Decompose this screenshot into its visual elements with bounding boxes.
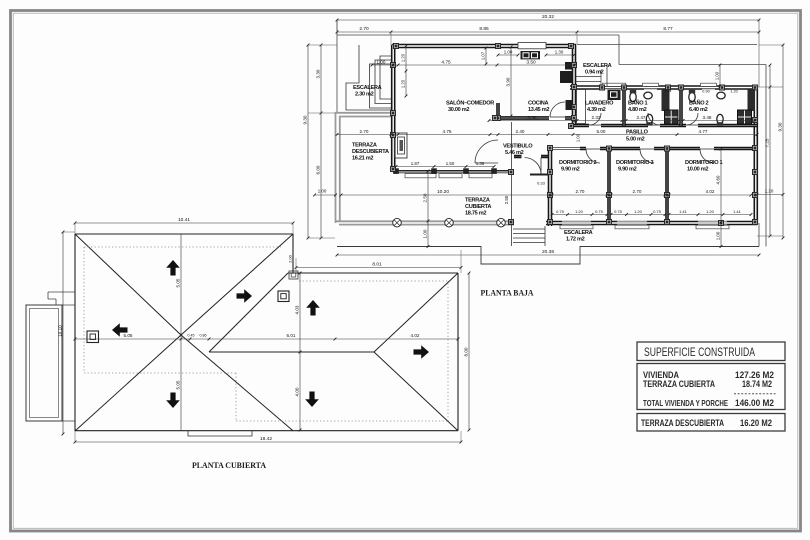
svg-text:SALÓN–COMEDOR: SALÓN–COMEDOR (446, 99, 494, 107)
svg-text:5.05: 5.05 (175, 278, 180, 287)
west stair boundary step (346, 45, 391, 110)
svg-text:2.70: 2.70 (359, 26, 369, 32)
dim 4.02 dorm1 (669, 194, 751, 196)
left roof outline (75, 234, 458, 431)
svg-text:0.33: 0.33 (537, 181, 546, 186)
dashed separator (734, 393, 776, 395)
svg-text:6.00: 6.00 (315, 165, 320, 174)
svg-text:5.05: 5.05 (124, 333, 133, 338)
svg-text:1.00: 1.00 (422, 229, 427, 238)
svg-text:1.00: 1.00 (715, 231, 720, 240)
porch column 3 (497, 218, 506, 227)
bottom plot outline with stair notch (337, 247, 759, 265)
svg-text:0.45: 0.45 (188, 334, 195, 338)
svg-text:10.00 m2: 10.00 m2 (687, 167, 708, 173)
east wall of cocina (572, 45, 577, 126)
vestibule east / dorm2 west wall (548, 148, 553, 227)
dim row y=166.5 windows 1.87 1.50 1.38 (396, 166, 494, 168)
svg-text:10.41: 10.41 (178, 217, 190, 223)
dim row y=120.5: 3.50 2.33 2.47 3.48 (489, 120, 757, 122)
svg-text:4.75: 4.75 (443, 129, 452, 134)
left boundary thin line x=337 (336, 20, 338, 113)
door cocina (550, 116, 565, 118)
right roof hip SE (374, 352, 458, 431)
back stair treads (576, 76, 602, 78)
terraza descubierta west wall (gray) (335, 112, 337, 223)
columns on walls (393, 43, 399, 49)
svg-text:18.42: 18.42 (260, 436, 272, 442)
roof slope arrow right-upper (237, 289, 253, 303)
table bottom box (637, 414, 785, 432)
dim row 2.70 / 8.85 / 8.77 (337, 31, 759, 33)
svg-text:4.02: 4.02 (411, 333, 420, 338)
svg-text:1.20: 1.20 (706, 209, 715, 214)
svg-text:2.70: 2.70 (633, 189, 642, 194)
terraza bottom connector (62, 420, 75, 422)
svg-text:DORMITORIO 1: DORMITORIO 1 (685, 160, 723, 166)
roof bottom small tab (188, 431, 252, 436)
svg-text:18.75 m2: 18.75 m2 (465, 211, 486, 217)
dim 1.20 right side (757, 194, 783, 196)
roof dim 8.01 (296, 267, 461, 269)
west stair escalera 2.30 nested steps (380, 56, 391, 99)
right outline x=759 upper ext (758, 20, 760, 87)
porch slab edge (gray) (335, 220, 514, 222)
svg-text:2.47: 2.47 (637, 115, 646, 120)
svg-text:1.11: 1.11 (664, 89, 671, 93)
svg-text:6.40 m2: 6.40 m2 (689, 107, 708, 113)
partition bano1-bano2 (679, 87, 683, 126)
window in dorm2 north wall (552, 146, 580, 150)
svg-text:1.00: 1.00 (714, 71, 719, 80)
svg-text:20.38: 20.38 (542, 249, 554, 255)
svg-text:TERRAZA: TERRAZA (465, 198, 490, 204)
dim 20.38 bottom (337, 254, 759, 256)
left roof hip NE (181, 234, 293, 335)
vestibule south wall with front door (514, 155, 548, 158)
svg-text:PLANTA CUBIERTA: PLANTA CUBIERTA (192, 460, 267, 470)
svg-text:18.74 M2: 18.74 M2 (742, 379, 772, 389)
door dormitorio1 (700, 148, 714, 150)
svg-text:TERRAZA CUBIERTA: TERRAZA CUBIERTA (643, 379, 716, 389)
svg-text:0.75: 0.75 (556, 209, 565, 214)
svg-text:1.00: 1.00 (318, 189, 327, 194)
dim 3.90 vertical cocina (510, 47, 512, 116)
right roof top edge (288, 272, 458, 274)
kitchen sink-stove block (521, 51, 541, 59)
oven by east wall (566, 100, 573, 110)
dim row y=134.5: 2.70 4.75 2.40 5.00 4.77 (337, 134, 757, 136)
table title box (637, 342, 785, 361)
svg-text:6.01: 6.01 (287, 333, 296, 338)
right roof hip NE (374, 273, 458, 352)
fireplace on salon west wall (395, 133, 408, 158)
svg-text:LAVADERO: LAVADERO (585, 101, 614, 107)
roof vertical dim x=181: 5.05 5.05 (180, 234, 182, 431)
dim 1.00 wing eave vertical (719, 65, 721, 86)
svg-text:PLANTA BAJA: PLANTA BAJA (481, 288, 535, 298)
svg-text:DORMITORIO 3: DORMITORIO 3 (616, 160, 654, 166)
north wall of right wing (570, 85, 757, 90)
dim row y=65: 1.00 4.75 3.50 (372, 64, 575, 66)
roof slope arrow down-right roof (305, 392, 319, 408)
dim 2.70 dorm2 (552, 194, 607, 196)
svg-text:3.50: 3.50 (528, 115, 537, 120)
svg-text:1.20: 1.20 (634, 209, 643, 214)
svg-text:5.05: 5.05 (175, 380, 180, 389)
svg-text:ESCALERA: ESCALERA (583, 63, 612, 69)
dim 9.30 rightmost vertical (782, 45, 784, 238)
svg-text:4.03: 4.03 (294, 305, 299, 314)
terraza descubierta north wall (gray) (335, 112, 392, 114)
left dim extension lines (308, 44, 337, 46)
vestibule lobby south lip (530, 174, 548, 176)
roof dim 10.10 left (62, 232, 64, 434)
dim 10.20 porch (341, 194, 550, 196)
bano1 bidet (646, 114, 652, 123)
window gap dormitorio 3 south (617, 221, 647, 225)
valley between roofs (209, 273, 288, 352)
fridge (560, 71, 572, 83)
svg-text:5.00: 5.00 (597, 129, 606, 134)
salon east stub wall (496, 103, 500, 119)
svg-text:4.02: 4.02 (706, 189, 715, 194)
right outline x=759 lower (758, 223, 760, 247)
eave line back (top) of left section (337, 34, 619, 36)
svg-text:0.90: 0.90 (702, 90, 709, 94)
ridge line (209, 351, 374, 353)
svg-text:10.20: 10.20 (437, 189, 449, 195)
bano2 sink (717, 92, 725, 99)
porch column 1 (393, 218, 402, 227)
roof dashed footprint (84, 246, 281, 248)
svg-text:2.50: 2.50 (422, 193, 427, 202)
dim 1.00 left of terraza (315, 194, 336, 196)
svg-text:5.00 m2: 5.00 m2 (626, 137, 645, 143)
svg-text:4.39 m2: 4.39 m2 (587, 107, 606, 113)
garden stair escalera 1.72 treads (513, 228, 545, 230)
svg-text:1.20: 1.20 (765, 189, 774, 194)
svg-text:9.30: 9.30 (777, 122, 782, 131)
dim 1.00 / 1.30 kitchen top (498, 54, 518, 56)
bano2 toilet (689, 92, 695, 101)
svg-text:PASILLO: PASILLO (626, 130, 649, 136)
svg-text:0.86: 0.86 (200, 334, 207, 338)
roof horizontal dim line 5.05 0.45 0.86 6.01 4.02 (75, 338, 458, 340)
svg-text:CUBIERTA: CUBIERTA (465, 204, 491, 210)
svg-text:10.10: 10.10 (57, 325, 62, 337)
roof terraza rectangle (26, 305, 62, 421)
svg-text:3.48: 3.48 (703, 115, 712, 120)
svg-text:COCINA: COCINA (528, 101, 549, 107)
svg-text:9.90 m2: 9.90 m2 (618, 167, 637, 173)
svg-text:2.50: 2.50 (504, 195, 509, 204)
svg-text:1.87: 1.87 (411, 161, 420, 166)
porch column 2 (445, 218, 454, 227)
dim 4.60 dorm1 vertical (720, 149, 722, 222)
washing machine (608, 90, 621, 101)
svg-text:1.50: 1.50 (446, 161, 455, 166)
svg-text:7.25: 7.25 (764, 138, 769, 147)
svg-text:3.90: 3.90 (505, 77, 510, 86)
east wall of dwelling (753, 86, 758, 224)
roof slope arrow left (112, 323, 128, 337)
eave line over right wing (619, 64, 766, 66)
dim 1.07 vertical (485, 48, 487, 64)
roof slope arrow up-right roof (306, 300, 320, 316)
bano2 bidet (717, 114, 723, 123)
svg-text:0.75: 0.75 (595, 209, 604, 214)
door salon-vestibulo (475, 162, 498, 164)
svg-text:1.20: 1.20 (575, 209, 584, 214)
dim 9.30 leftmost vertical (307, 45, 309, 238)
window gap dormitorio 1 south (698, 221, 727, 225)
svg-text:1.38: 1.38 (476, 161, 485, 166)
svg-text:4.75: 4.75 (441, 59, 451, 65)
roof dim 8.00 right (468, 273, 470, 430)
thin line along y=44.5 right of cocina (577, 44, 757, 46)
salon south window sills (405, 174, 436, 178)
svg-text:16.20 M2: 16.20 M2 (740, 418, 772, 428)
kitchen small appliance (565, 62, 572, 70)
salon south glazing line (393, 170, 511, 172)
svg-text:4.60: 4.60 (715, 175, 720, 184)
svg-text:0.94 m2: 0.94 m2 (585, 70, 604, 76)
bano1 duct block (662, 89, 670, 111)
left roof hip NW (75, 234, 181, 335)
svg-text:1.07: 1.07 (480, 51, 485, 60)
dim 1.20 1.20 vertical salon west (405, 46, 407, 96)
svg-text:BAÑO 1: BAÑO 1 (628, 100, 648, 107)
svg-text:1.20: 1.20 (730, 90, 737, 94)
dim 1.00 below dorm1 (720, 223, 722, 247)
svg-text:2.30 m2: 2.30 m2 (355, 92, 374, 98)
svg-text:1.00: 1.00 (575, 133, 580, 142)
glazing posts (393, 168, 399, 174)
svg-text:146.00 M2: 146.00 M2 (735, 398, 774, 408)
dim row y=214.5 dorm windows (552, 214, 607, 216)
svg-text:4.77: 4.77 (699, 129, 708, 134)
svg-text:2.00: 2.00 (287, 254, 292, 263)
svg-text:3.30: 3.30 (315, 69, 320, 78)
door dormitorio2 (586, 148, 600, 150)
partition dorm2-dorm3 (607, 149, 611, 223)
left roof hip SW (75, 335, 181, 431)
svg-text:8.85: 8.85 (479, 26, 489, 32)
bano2 shower (738, 110, 752, 124)
svg-text:2.33: 2.33 (592, 115, 601, 120)
back stair escalera 0.94 outline (606, 65, 608, 87)
roof slope arrow right-right roof (414, 345, 430, 359)
south wall of dormitorios (546, 221, 757, 226)
door bano2 (686, 124, 698, 126)
svg-text:TERRAZA DESCUBIERTA: TERRAZA DESCUBIERTA (641, 418, 724, 428)
svg-text:2.70: 2.70 (360, 129, 369, 134)
svg-text:TERRAZA: TERRAZA (352, 143, 377, 149)
svg-text:1.41: 1.41 (679, 209, 688, 214)
svg-text:20.32: 20.32 (542, 14, 554, 20)
door dormitorio3 (640, 148, 654, 150)
svg-text:2.40: 2.40 (516, 129, 525, 134)
svg-text:ESCALERA: ESCALERA (564, 230, 593, 236)
svg-text:DESCUBIERTA: DESCUBIERTA (352, 149, 389, 155)
dim 2.50 / 1.00 porch vertical (427, 171, 429, 247)
north wall of salon-cocina (392, 44, 576, 49)
svg-text:DORMITORIO 2: DORMITORIO 2 (559, 160, 597, 166)
svg-text:ESCALERA: ESCALERA (353, 85, 382, 91)
svg-text:5.46 m2: 5.46 m2 (505, 150, 524, 156)
dim 20.32 top (337, 19, 759, 21)
partition lavadero-bano1 (622, 87, 626, 126)
dim 7.25 right vertical (769, 65, 771, 236)
right roof right edge (457, 273, 459, 431)
svg-text:4.00: 4.00 (294, 387, 299, 396)
svg-text:TOTAL VIVIENDA Y PORCHE: TOTAL VIVIENDA Y PORCHE (643, 399, 729, 408)
svg-text:1.72 m2: 1.72 m2 (566, 237, 585, 243)
window gap dormitorio 2 south (562, 221, 591, 225)
lavadero counter rect (577, 90, 586, 124)
door bano1 (648, 124, 660, 126)
chimney near valley (278, 291, 289, 302)
svg-text:1.00: 1.00 (504, 49, 513, 54)
table main box (637, 364, 785, 410)
bath band south wall (pasillo north) (571, 124, 757, 128)
right eave vertical (765, 65, 767, 247)
svg-text:BAÑO 2: BAÑO 2 (689, 100, 709, 107)
svg-text:VESTIBULO: VESTIBULO (503, 144, 533, 150)
small box at right roof corner (289, 271, 298, 279)
bano1 toilet (630, 92, 636, 101)
svg-text:0.75: 0.75 (653, 209, 662, 214)
vestibule west line (511, 122, 513, 246)
terraza connection steps (48, 292, 75, 305)
bano1 shower (665, 110, 679, 124)
svg-text:2.70: 2.70 (576, 189, 585, 194)
svg-text:8.01: 8.01 (372, 262, 382, 268)
bano1 sink (644, 92, 652, 99)
svg-text:SUPERFICIE CONSTRUIDA: SUPERFICIE CONSTRUIDA (644, 347, 755, 359)
svg-text:1.20: 1.20 (400, 79, 405, 88)
dim 3.30 / 8.00 left vertical (320, 45, 322, 238)
roof dim 18.42 bottom (75, 441, 461, 443)
svg-text:1.20: 1.20 (400, 53, 405, 62)
window gaps on wing north wall (604, 85, 624, 89)
svg-text:3.50: 3.50 (526, 59, 536, 65)
roof vertical dim x=300: 4.03 4.00 (299, 273, 301, 430)
chimney on left roof (87, 331, 99, 343)
svg-text:30.00 m2: 30.00 m2 (448, 107, 469, 113)
west wall of salon (391, 45, 396, 172)
svg-text:13.45 m2: 13.45 m2 (528, 107, 549, 113)
door lavadero (589, 124, 601, 126)
cocina south wall (495, 116, 575, 120)
svg-text:16.21 m2: 16.21 m2 (352, 156, 373, 162)
roof dim 10.41 (75, 222, 293, 224)
svg-text:8.00: 8.00 (463, 347, 468, 356)
svg-text:1.00: 1.00 (377, 59, 386, 64)
right dim extension lines (757, 86, 783, 88)
svg-text:4.80 m2: 4.80 m2 (628, 107, 647, 113)
eave step vertical at x=619 (618, 35, 620, 65)
dim 2.70 dorm3 (611, 194, 665, 196)
left roof hip SE (181, 335, 293, 431)
svg-text:1.30: 1.30 (555, 49, 564, 54)
svg-text:1.41: 1.41 (733, 209, 742, 214)
svg-text:8.77: 8.77 (663, 26, 673, 32)
pasillo south wall (dorm north) (555, 147, 757, 151)
bano2 duct block (748, 89, 756, 111)
svg-text:9.30: 9.30 (302, 115, 307, 124)
kitchen counter (518, 43, 546, 49)
roof slope arrow down-left roof (166, 393, 180, 409)
partition dorm3-dorm1 (665, 149, 669, 223)
svg-text:9.90 m2: 9.90 m2 (561, 167, 580, 173)
roof slope arrow up-left roof (166, 260, 180, 276)
svg-text:0.75: 0.75 (614, 209, 623, 214)
